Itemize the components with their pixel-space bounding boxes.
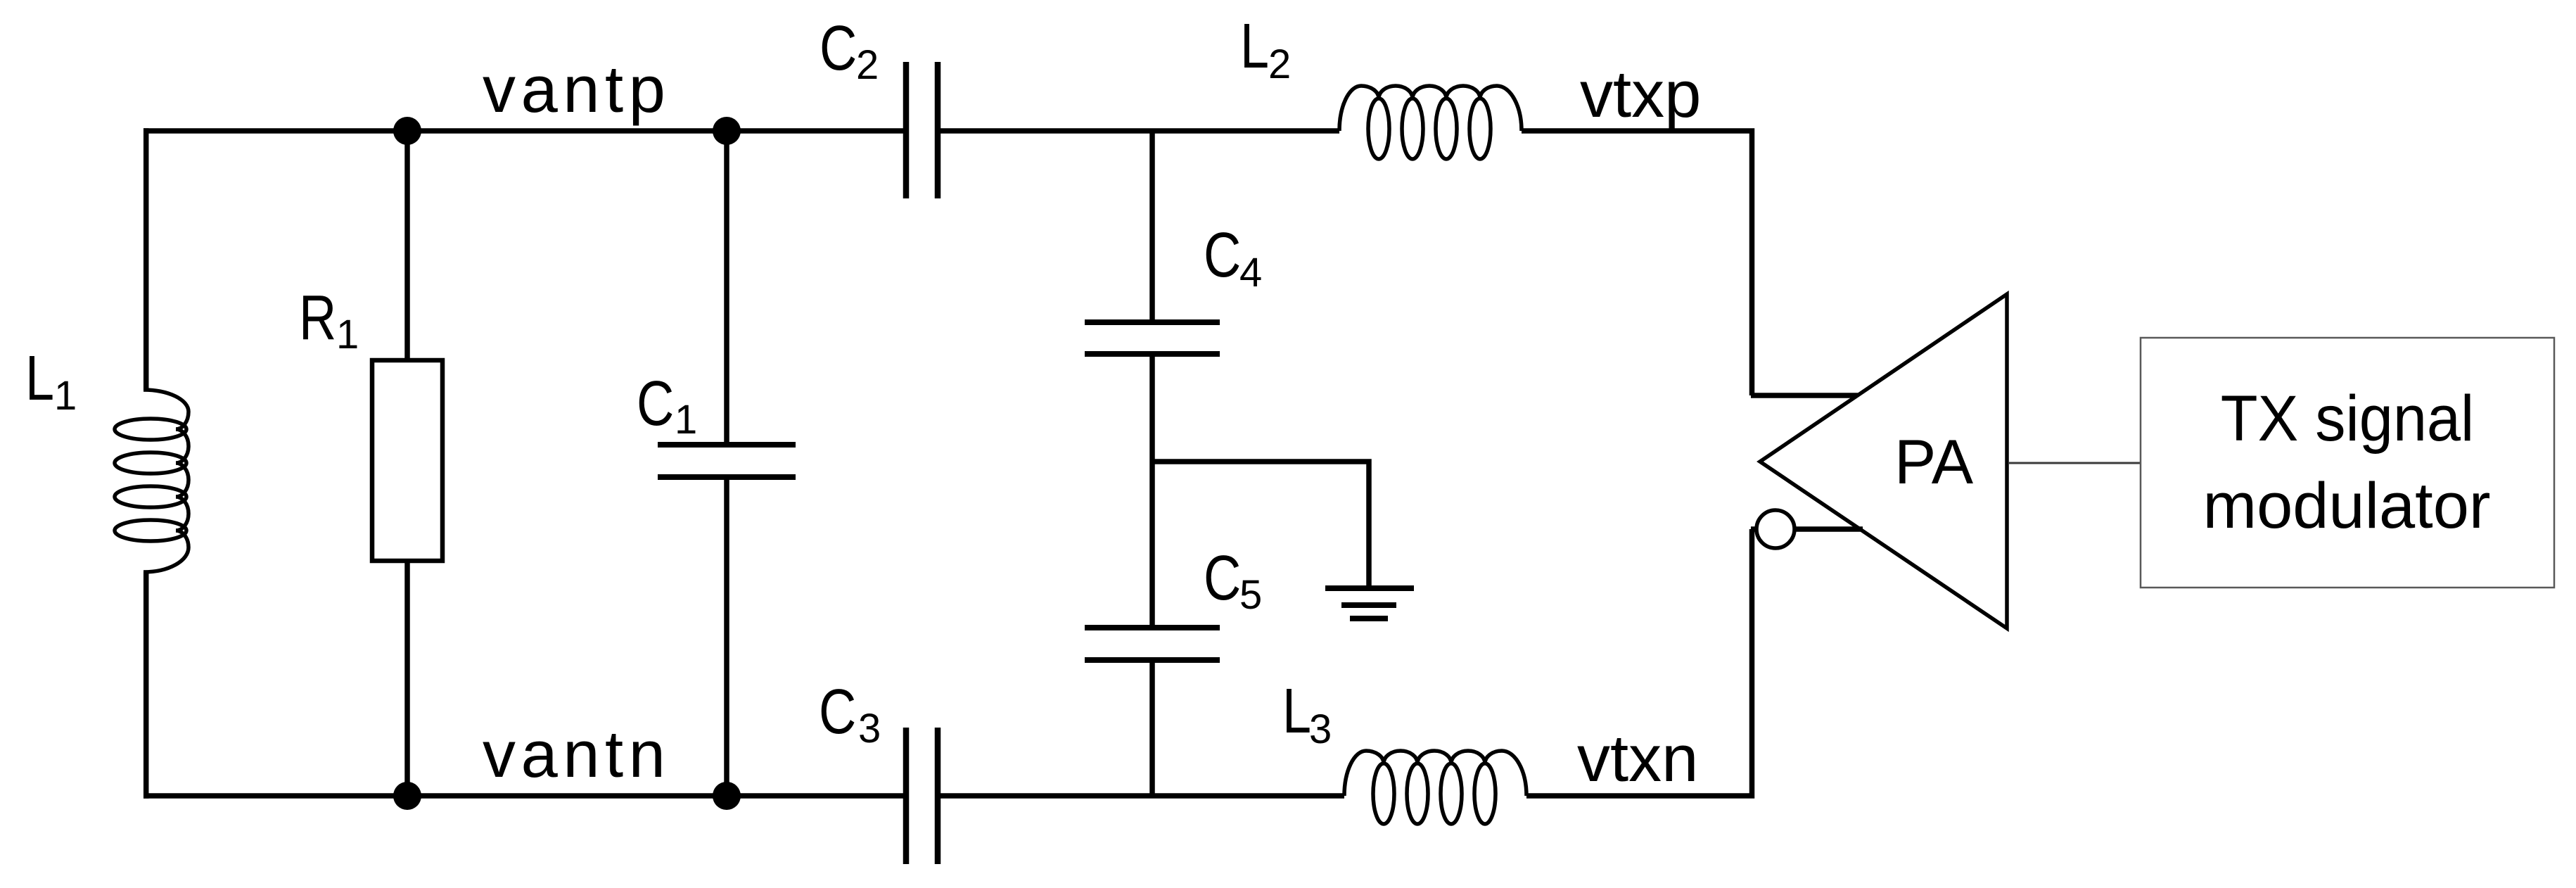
svg-text:4: 4 [1239, 250, 1262, 296]
svg-text:C: C [1204, 543, 1241, 614]
label L2 [1240, 11, 1269, 82]
svg-text:3: 3 [858, 706, 881, 751]
op-amp PA triangle [1760, 294, 2007, 628]
svg-text:R: R [299, 283, 336, 353]
svg-text:2: 2 [1268, 42, 1291, 87]
label TX signal (modulator box line 1) [2221, 382, 2474, 455]
capacitor C3 plates [903, 728, 910, 864]
wire: ground branch [1152, 462, 1369, 587]
svg-text:1: 1 [336, 312, 359, 357]
svg-text:3: 3 [1309, 706, 1332, 752]
wire: left vertical, upper part [144, 128, 149, 390]
wire: vtxp segment after L2 coil to PA corner [1522, 131, 1752, 395]
capacitor C1 bottom wire [724, 477, 729, 796]
wire: PA non-inverting input stub [1751, 393, 1861, 398]
wire: PA output to modulator box [2009, 462, 2141, 464]
svg-text:2: 2 [856, 42, 879, 88]
svg-text:vtxp: vtxp [1580, 57, 1701, 131]
node dot: vantn / R1 junction [393, 782, 421, 810]
label R1 [299, 283, 336, 353]
capacitor C4 plates [1085, 319, 1220, 325]
label C1 [637, 369, 674, 439]
svg-text:C: C [820, 13, 857, 84]
capacitor C5 plates [1085, 625, 1220, 630]
svg-text:C: C [637, 369, 674, 439]
svg-text:vtxn: vtxn [1577, 721, 1698, 795]
resistor R1 bottom wire [404, 561, 410, 796]
wire: left vertical, lower part [144, 572, 149, 799]
wire: C5 to bottom rail [1149, 660, 1155, 796]
wire: bottom rail middle segment (C3 to L3) [938, 793, 1344, 799]
wire: top rail left segment (vantp net) [144, 128, 906, 134]
capacitor C2 plates [903, 62, 910, 198]
resistor R1 top wire [404, 131, 410, 360]
svg-text:C: C [819, 677, 856, 747]
wire: inverting input stub [1794, 526, 1863, 532]
label C3 [819, 677, 856, 747]
inductor L3 (horizontal coil, bottom) [1344, 751, 1526, 796]
wire: node between C4 and C5 [1149, 354, 1155, 628]
label L1 [25, 343, 54, 414]
PA inverting input bubble [1751, 526, 1756, 532]
wire: top rail middle segment (C2 to L2) [938, 128, 1339, 134]
svg-text:5: 5 [1239, 572, 1262, 618]
inductor L2 (horizontal coil, top) [1339, 86, 1522, 131]
svg-text:TX signal: TX signal [2221, 382, 2474, 455]
node dot: vantn / C1 junction [713, 782, 741, 810]
label C2 [820, 13, 857, 84]
capacitor C1 top wire [724, 131, 729, 443]
svg-text:L: L [25, 343, 54, 414]
TX signal modulator box [2141, 338, 2554, 588]
label L3 [1282, 676, 1311, 747]
svg-text:1: 1 [54, 373, 77, 419]
svg-text:1: 1 [675, 397, 697, 443]
label C4 [1204, 220, 1241, 291]
svg-text:L: L [1282, 676, 1311, 747]
node dot: vantp / C1 junction [713, 117, 741, 145]
wire: vtxn segment after L3 coil to PA corner [1526, 529, 1752, 796]
svg-text:C: C [1204, 220, 1241, 291]
inductor L1 (vertical coil) [144, 390, 189, 572]
wire: bottom rail left segment (vantn net) [144, 793, 906, 799]
capacitor C1 plates [658, 442, 796, 448]
ground symbol [1325, 588, 1414, 619]
label C5 [1204, 543, 1241, 614]
svg-text:PA: PA [1894, 426, 1974, 497]
svg-text:L: L [1240, 11, 1269, 82]
capacitor C4 wire from top rail [1149, 131, 1155, 322]
svg-text:vantn: vantn [483, 717, 670, 791]
node dot: vantp / R1 junction [393, 117, 421, 145]
svg-text:vantp: vantp [483, 52, 670, 126]
resistor R1 body [372, 360, 442, 561]
svg-text:modulator: modulator [2202, 470, 2490, 542]
